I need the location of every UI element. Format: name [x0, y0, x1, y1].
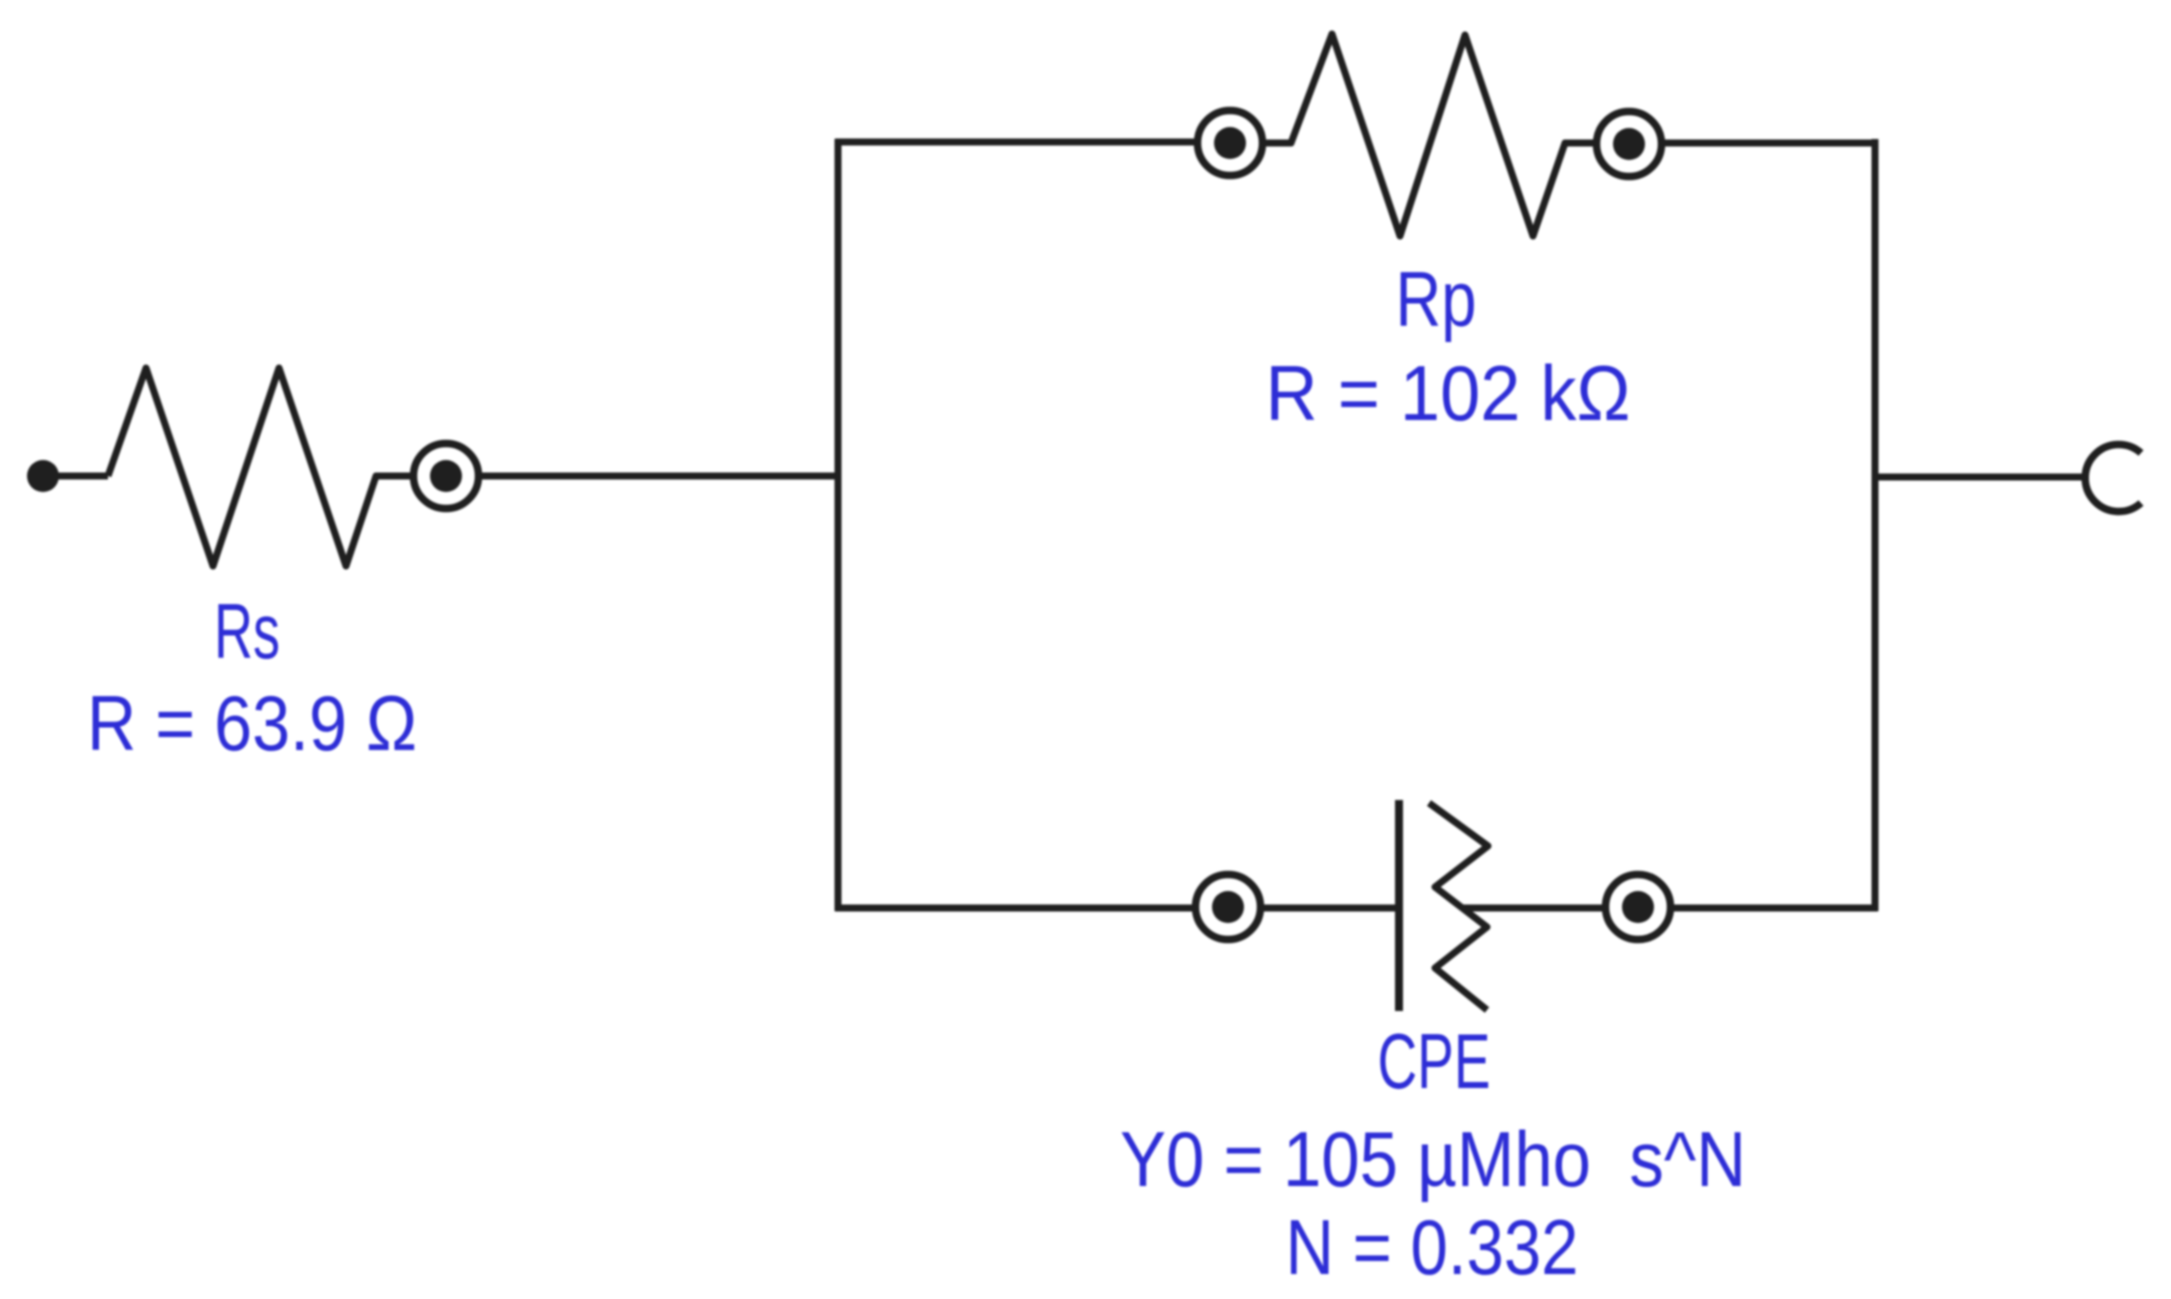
wire (right junction to output terminal): [1875, 474, 2089, 481]
resistor Rp: [1263, 34, 1596, 236]
terminal (open output, C shape): [2085, 445, 2141, 512]
node (CPE left): [1196, 875, 1261, 940]
svg-text:N = 0.332: N = 0.332: [1286, 1203, 1579, 1291]
wire (bottom branch left): [835, 905, 1195, 912]
resistor Rs: [108, 368, 410, 566]
svg-text:Rs: Rs: [214, 587, 280, 675]
wire (left junction vertical): [835, 139, 842, 911]
CPE element CPE (plate + zigzag): [1399, 800, 1488, 1011]
terminal dot (left input node): [27, 460, 59, 492]
wire (top branch left): [835, 139, 1197, 146]
svg-text:Rp: Rp: [1396, 255, 1477, 343]
wire (bottom branch right): [1671, 905, 1878, 912]
wire (CPE left lead): [1261, 905, 1399, 912]
svg-text:Y0 = 105 µMho s^N: Y0 = 105 µMho s^N: [1120, 1115, 1746, 1203]
node (between Rs and parallel block): [414, 444, 479, 509]
svg-text:R = 63.9 Ω: R = 63.9 Ω: [87, 679, 417, 767]
wire (top branch right): [1662, 140, 1878, 147]
wire (input to Rs): [57, 473, 108, 480]
node (Rp left): [1198, 111, 1263, 176]
wire (node to left junction): [479, 473, 838, 480]
svg-text:CPE: CPE: [1378, 1017, 1491, 1105]
wire (right junction vertical): [1872, 139, 1879, 911]
node (CPE right): [1606, 875, 1671, 940]
svg-text:R = 102 kΩ: R = 102 kΩ: [1266, 349, 1631, 437]
wire (CPE right lead): [1462, 905, 1605, 912]
node (Rp right): [1597, 112, 1662, 177]
